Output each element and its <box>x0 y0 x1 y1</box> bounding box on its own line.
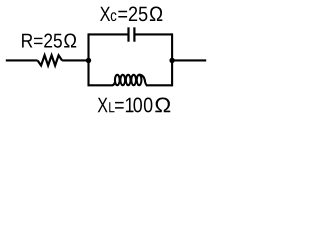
wire (input lead) <box>6 59 38 61</box>
wire (top rail, right of capacitor) <box>134 33 172 35</box>
wire (resistor to left node) <box>62 59 88 61</box>
label R=25(ohm) <box>22 34 76 48</box>
node (left junction) <box>86 58 91 63</box>
wire (output lead) <box>172 59 206 61</box>
label XL=100(ohm) <box>98 98 171 113</box>
inductor L (coil loop 1) <box>115 75 120 85</box>
capacitor C (left plate) <box>127 27 129 41</box>
label Xc=25(ohm) <box>100 6 162 21</box>
wire (top rail, left of capacitor) <box>89 33 129 35</box>
inductor L (coil loop 2) <box>120 75 125 85</box>
wire (right vertical) <box>171 33 173 86</box>
wire (bottom rail, right of inductor) <box>146 84 172 86</box>
inductor L (exit shoulder) <box>139 75 147 86</box>
wire (bottom rail, left of inductor) <box>89 84 113 86</box>
inductor L (coil loop 5) <box>137 75 142 85</box>
inductor L (coil loop 3) <box>126 75 131 85</box>
inductor L (coil loop 4) <box>131 75 136 85</box>
node (right junction) <box>169 58 174 63</box>
wire (left vertical) <box>87 33 89 86</box>
wire (white separations between coil loop bottoms) <box>114 84 143 87</box>
resistor R <box>38 55 63 65</box>
capacitor C (right plate) <box>133 27 135 41</box>
inductor L (entry hook) <box>112 83 115 86</box>
